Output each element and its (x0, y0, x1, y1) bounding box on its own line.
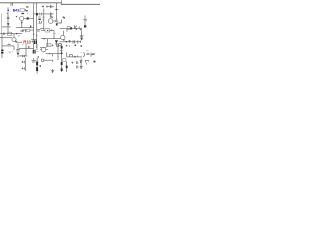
svg-text:R10: R10 (23, 39, 31, 44)
svg-text:B41: B41 (13, 8, 21, 13)
